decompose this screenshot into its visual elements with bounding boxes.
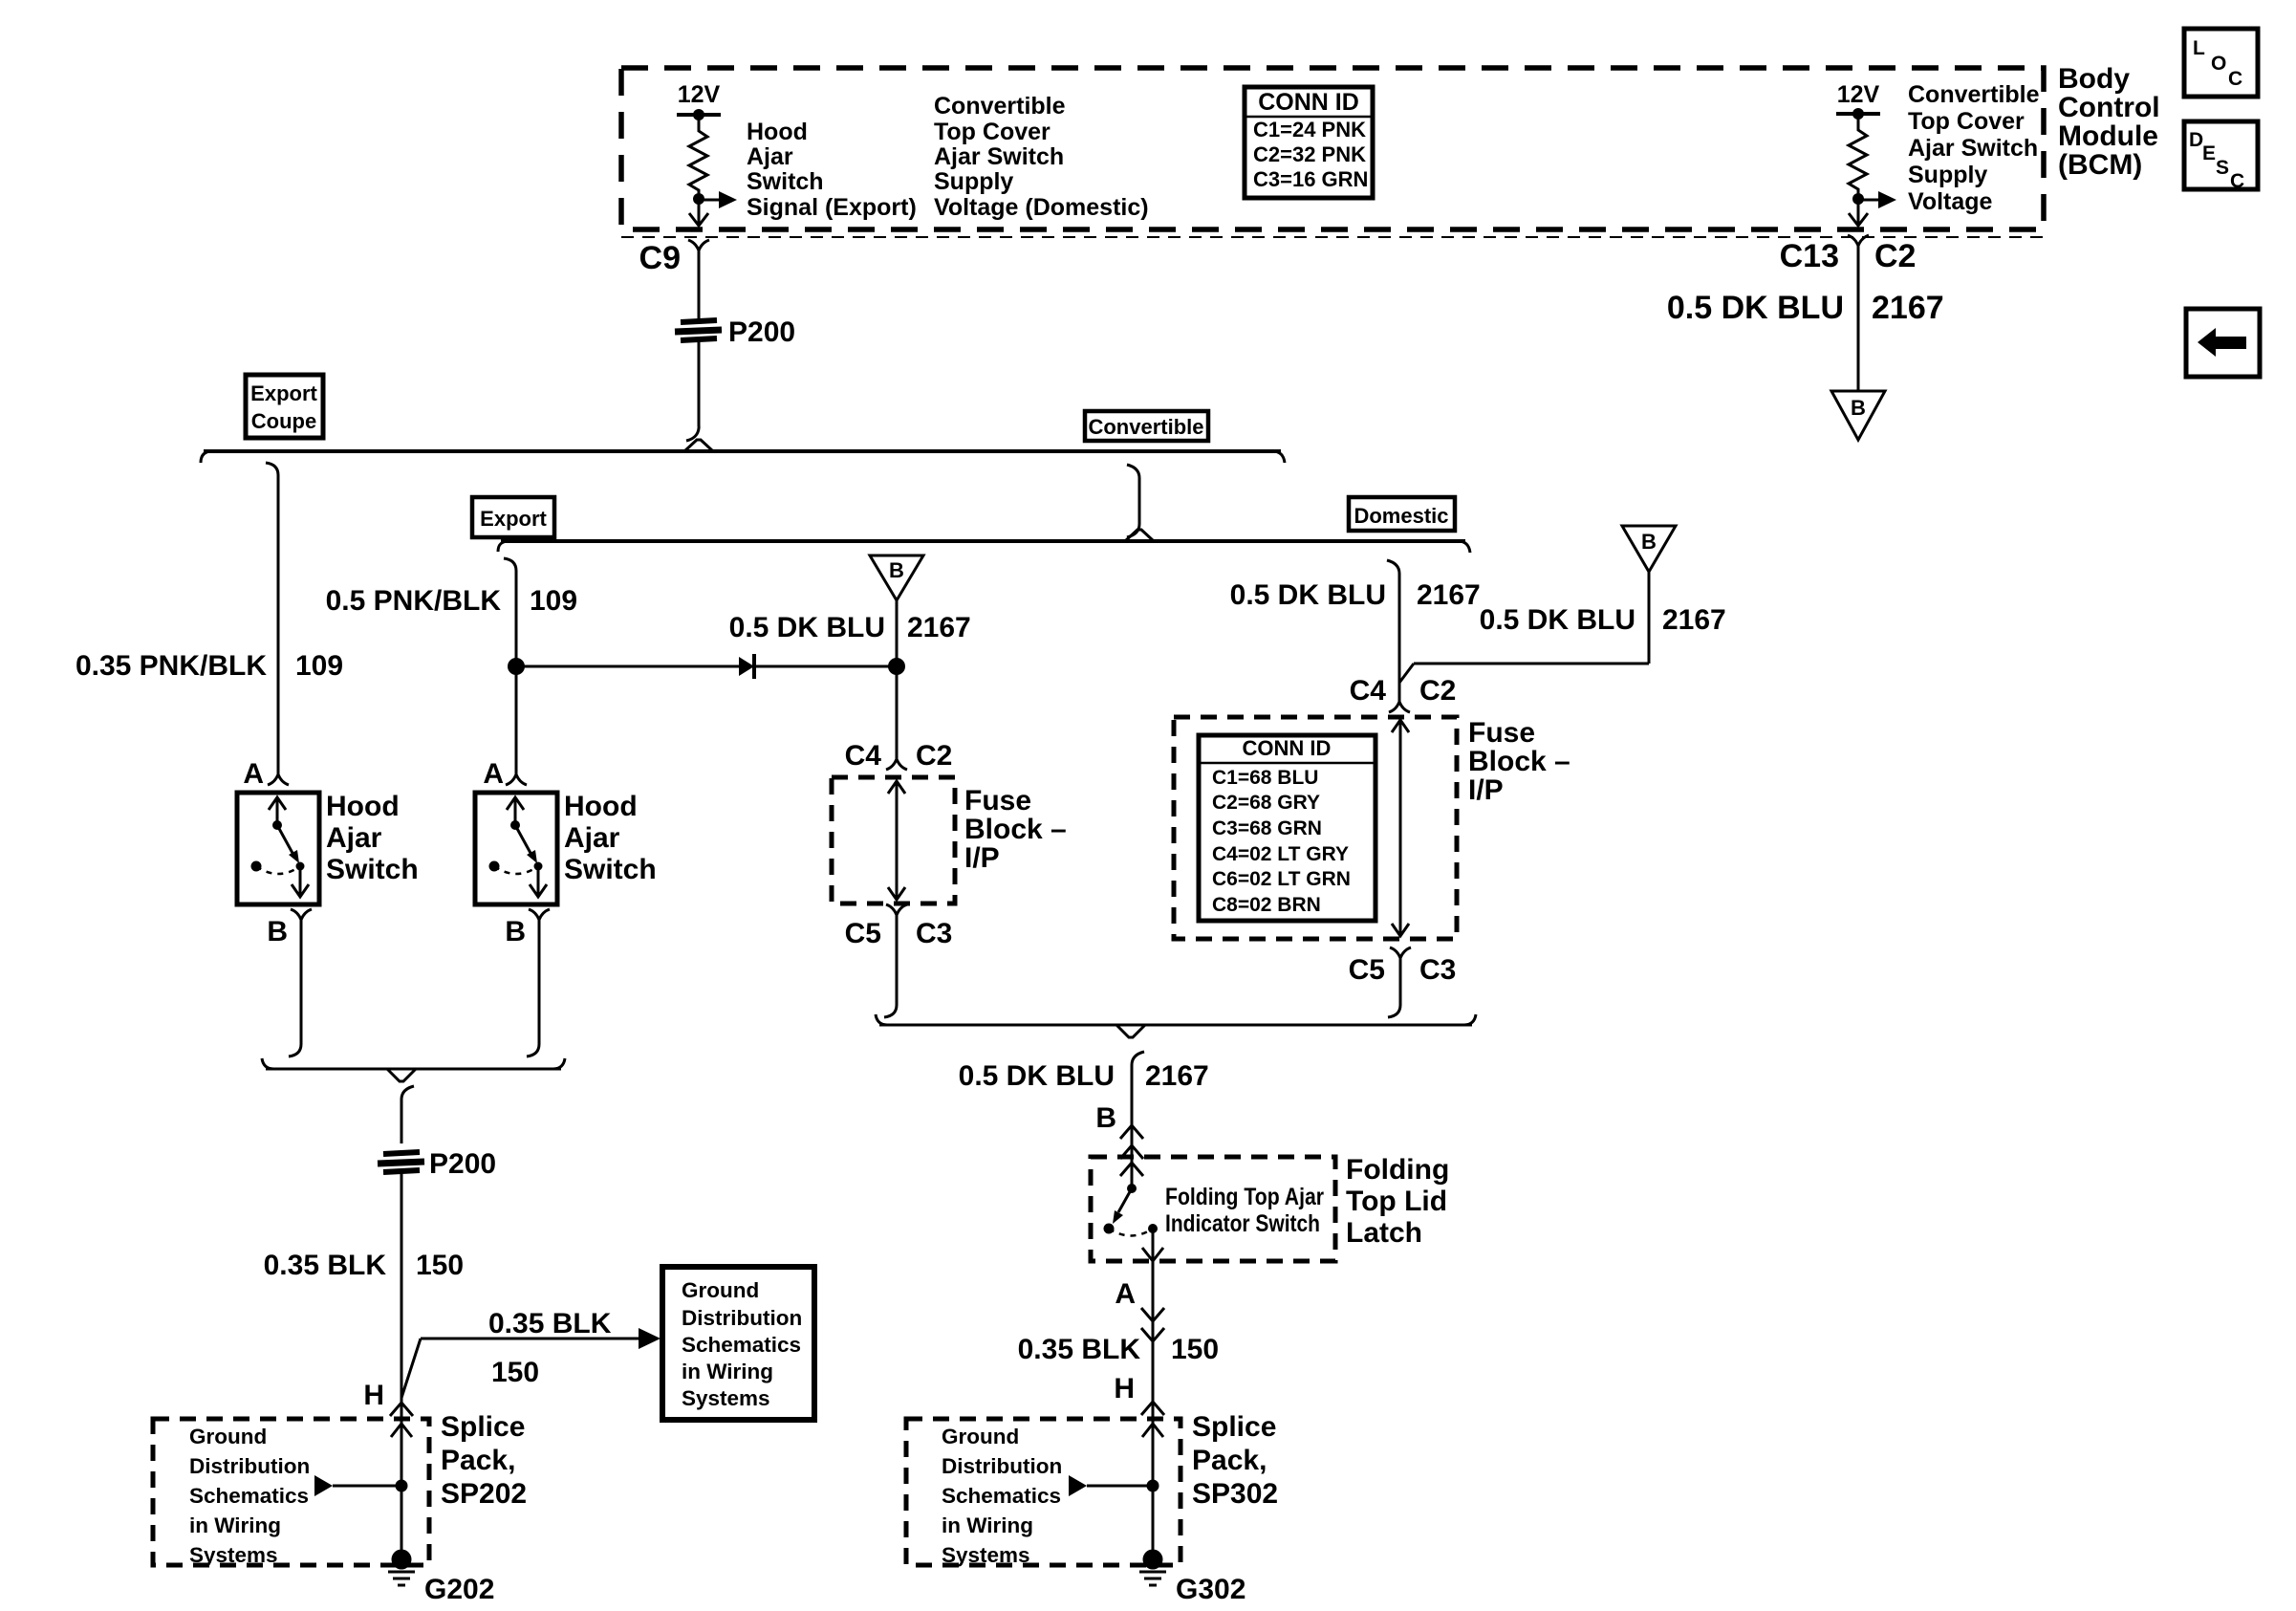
label: Fuse Block - I/P (left) [964, 785, 1067, 874]
svg-text:Systems: Systems [942, 1543, 1030, 1567]
node: splice SP202 [396, 1480, 408, 1492]
back-arrow reference box [2186, 309, 2260, 377]
fuse element (double-ended arrow) [888, 781, 905, 900]
splice SP302 entry arrow [1142, 1424, 1163, 1437]
svg-text:L: L [2193, 37, 2205, 59]
svg-text:Block –: Block – [964, 814, 1067, 845]
svg-text:0.35 BLK: 0.35 BLK [488, 1308, 612, 1339]
svg-text:in Wiring: in Wiring [189, 1513, 281, 1537]
wire P200 to option bus [698, 342, 701, 426]
power feed triangle B (export) [870, 555, 923, 600]
svg-text:Convertible: Convertible [1908, 81, 2040, 108]
label: Hood Ajar Switch (left) [326, 791, 419, 885]
svg-text:Convertible: Convertible [1088, 415, 1203, 439]
svg-text:O: O [2211, 53, 2226, 75]
svg-text:B: B [1095, 1102, 1116, 1134]
svg-text:Distribution: Distribution [682, 1306, 802, 1330]
hood ajar switch (export coupe) [237, 793, 319, 904]
grommet P200 (upper) [675, 316, 795, 348]
node: 12V tap (domestic) [1852, 108, 1864, 120]
folding top ajar indicator switch [1104, 1163, 1325, 1261]
pin B (export coupe switch) [267, 909, 312, 947]
svg-text:C: C [2228, 68, 2242, 90]
svg-text:Ajar Switch: Ajar Switch [1908, 135, 2038, 162]
arrow down to pin C2 [1857, 199, 1860, 225]
svg-text:C4: C4 [1350, 675, 1387, 707]
svg-text:A: A [483, 758, 504, 790]
svg-text:C3: C3 [1419, 954, 1456, 986]
svg-text:Schematics: Schematics [682, 1333, 801, 1357]
resistor (hood ajar switch pull-up, export) [689, 115, 707, 199]
pin B (folding top switch) [1095, 1102, 1143, 1159]
wire: C5 to collector [884, 915, 897, 1017]
svg-text:C2=32 PNK: C2=32 PNK [1253, 142, 1366, 166]
wire: P200 to splice pack SP202, 0.35 BLK 150 [264, 1174, 464, 1559]
splice branch arrow (SP302) [1069, 1475, 1153, 1496]
svg-text:Hood: Hood [564, 791, 638, 822]
svg-text:Distribution: Distribution [942, 1454, 1062, 1478]
wire: collector to P200 [401, 1099, 403, 1143]
CONN ID table (fuse block) [1199, 735, 1375, 921]
svg-text:C3: C3 [916, 918, 952, 949]
svg-text:Systems: Systems [189, 1543, 278, 1567]
svg-text:Ground: Ground [682, 1278, 759, 1302]
svg-text:2167: 2167 [1872, 290, 1944, 326]
wire: switch B to collector (right) [527, 920, 539, 1056]
svg-text:Export: Export [480, 507, 547, 531]
svg-text:Module: Module [2058, 120, 2158, 152]
pin B (export switch) [505, 909, 550, 947]
svg-text:P200: P200 [728, 316, 795, 348]
svg-text:B: B [267, 916, 288, 947]
svg-text:C2: C2 [1419, 675, 1456, 707]
label: Splice Pack, SP202 [441, 1411, 527, 1510]
svg-text:Supply: Supply [1908, 162, 1987, 188]
svg-text:Signal (Export): Signal (Export) [747, 194, 917, 221]
svg-text:I/P: I/P [1468, 774, 1504, 806]
wire: switch B to collector (left) [289, 920, 301, 1056]
wire: C3 to collector [1388, 958, 1400, 1017]
svg-text:P200: P200 [429, 1148, 496, 1180]
svg-text:109: 109 [530, 585, 577, 617]
svg-text:CONN ID: CONN ID [1258, 89, 1359, 116]
wire: C2 to power feed B, 0.5 DK BLU 2167 [1667, 246, 1944, 391]
svg-text:C3=68 GRN: C3=68 GRN [1212, 817, 1322, 839]
label: Fuse Block - I/P (right) [1468, 717, 1570, 806]
svg-text:Folding Top Ajar: Folding Top Ajar [1165, 1184, 1324, 1210]
svg-text:Coupe: Coupe [251, 409, 316, 433]
svg-text:12V: 12V [1837, 81, 1880, 108]
svg-text:Switch: Switch [747, 168, 824, 195]
label: Body Control Module (BCM) [2058, 63, 2160, 181]
svg-text:in Wiring: in Wiring [942, 1513, 1033, 1537]
12V supply rail (export) [677, 113, 721, 117]
svg-text:C6=02 LT GRN: C6=02 LT GRN [1212, 868, 1351, 890]
connector C5/C3 (fuse block right) [1349, 947, 1457, 986]
svg-text:2167: 2167 [1145, 1060, 1209, 1092]
svg-text:Top Cover: Top Cover [1908, 108, 2025, 135]
pin labels: Hood Ajar Switch Signal (Export) [747, 119, 917, 221]
folding top lid latch dashed box [1091, 1157, 1335, 1261]
LOC reference box [2184, 29, 2258, 97]
svg-text:C3=16 GRN: C3=16 GRN [1253, 167, 1368, 191]
svg-text:C2: C2 [1874, 238, 1916, 274]
arrow down to pin C9 [698, 199, 701, 225]
svg-text:Systems: Systems [682, 1386, 770, 1410]
svg-text:H: H [1114, 1373, 1135, 1404]
connector C13/C2 (BCM domestic) [1780, 235, 1917, 274]
fuse block I/P (right, dashed) [1174, 717, 1457, 939]
tag: Domestic [1349, 497, 1455, 531]
svg-text:Domestic: Domestic [1354, 504, 1448, 528]
svg-text:Indicator Switch: Indicator Switch [1165, 1210, 1320, 1237]
svg-text:C13: C13 [1780, 238, 1839, 274]
svg-text:S: S [2216, 157, 2229, 179]
wire: switch A to splice pack SP302 [1152, 1261, 1155, 1559]
svg-text:D: D [2189, 129, 2203, 151]
power feed triangle B (domestic top) [1831, 391, 1885, 440]
svg-text:0.5 DK BLU: 0.5 DK BLU [729, 612, 885, 643]
wire C9 to P200 [698, 250, 701, 319]
svg-text:Schematics: Schematics [189, 1484, 309, 1508]
svg-text:B: B [505, 916, 526, 947]
pin A (export switch) [483, 758, 527, 790]
svg-text:12V: 12V [678, 81, 721, 108]
svg-text:0.35 BLK: 0.35 BLK [264, 1250, 387, 1281]
ground G302 [1139, 1550, 1245, 1606]
svg-text:C1=24 PNK: C1=24 PNK [1253, 118, 1366, 142]
connector C4/C2 (fuse block right) [1350, 675, 1457, 712]
resistor (top cover ajar switch pull-up, domestic) [1849, 114, 1867, 199]
node: fuse feed splice [888, 658, 905, 675]
svg-text:Switch: Switch [326, 854, 419, 885]
ground distribution note (SP302) [942, 1425, 1062, 1567]
svg-text:Latch: Latch [1346, 1217, 1422, 1249]
svg-text:G202: G202 [424, 1574, 494, 1605]
diode [739, 654, 754, 679]
node: signal tap (export) [693, 193, 704, 205]
connector C5/C3 (fuse block left) [845, 904, 953, 949]
collector bus (hood switches) [262, 1058, 565, 1099]
svg-text:C9: C9 [639, 240, 681, 276]
svg-text:C1=68 BLU: C1=68 BLU [1212, 767, 1318, 789]
fuse element (right block) [1392, 720, 1409, 936]
wire: splice to connector C4 [896, 666, 899, 759]
wire: B feed to fuse block, 0.5 DK BLU 2167 [1399, 572, 1726, 683]
svg-text:C4=02 LT GRY: C4=02 LT GRY [1212, 843, 1349, 865]
body control module (BCM) dashed box [621, 68, 2044, 229]
svg-text:Switch: Switch [564, 854, 657, 885]
tag: Export [472, 497, 554, 537]
signal arrow (export) [699, 199, 721, 202]
12V supply rail (domestic) [1836, 112, 1880, 116]
pin labels: Convertible Top Cover Ajar Switch Supply Voltage [1908, 81, 2040, 215]
grommet P200 (lower) [378, 1148, 496, 1180]
splice pack SP202 dashed box [153, 1419, 429, 1565]
svg-text:C: C [2230, 170, 2244, 192]
svg-text:SP202: SP202 [441, 1478, 527, 1510]
svg-text:109: 109 [295, 650, 343, 682]
supply voltage arrow (domestic) [1858, 199, 1879, 202]
svg-text:0.5 DK BLU: 0.5 DK BLU [1667, 290, 1844, 326]
option bus: Export / Domestic [498, 530, 1470, 553]
svg-text:Ajar Switch: Ajar Switch [934, 143, 1064, 170]
svg-text:Convertible: Convertible [934, 93, 1066, 120]
pin H (SP302) [1114, 1373, 1164, 1415]
node: 12V tap (export) [693, 109, 704, 120]
svg-text:Ground: Ground [942, 1425, 1019, 1448]
svg-text:(BCM): (BCM) [2058, 149, 2142, 181]
collector bus (fuse block outputs) [876, 1014, 1476, 1065]
svg-text:Pack,: Pack, [441, 1445, 515, 1476]
branch wire 0.35 BLK 150 to ground distribution [401, 1308, 661, 1398]
node: splice SP302 [1147, 1480, 1159, 1492]
svg-text:150: 150 [491, 1357, 539, 1388]
svg-text:Splice: Splice [441, 1411, 525, 1443]
svg-text:C2: C2 [916, 740, 952, 772]
svg-text:0.5 DK BLU: 0.5 DK BLU [1230, 579, 1386, 611]
svg-text:0.35 BLK: 0.35 BLK [1018, 1334, 1141, 1365]
svg-text:2167: 2167 [1417, 579, 1481, 611]
svg-text:Top Cover: Top Cover [934, 119, 1051, 145]
svg-text:Control: Control [2058, 92, 2160, 123]
svg-text:Hood: Hood [326, 791, 400, 822]
svg-text:B: B [1641, 530, 1657, 554]
svg-text:Ajar: Ajar [564, 822, 620, 854]
pin A (folding top switch) [1115, 1278, 1164, 1341]
svg-text:Fuse: Fuse [964, 785, 1031, 816]
wire end curl [686, 425, 699, 441]
wire: export coupe branch 0.35 PNK/BLK 109 [76, 463, 343, 774]
svg-text:E: E [2202, 142, 2216, 164]
wire: convertible drop to second bus [1127, 465, 1139, 537]
svg-text:150: 150 [1171, 1334, 1219, 1365]
svg-text:Folding: Folding [1346, 1154, 1449, 1186]
splice SP202 entry arrow [391, 1424, 412, 1437]
svg-text:C4: C4 [845, 740, 882, 772]
svg-text:I/P: I/P [964, 842, 1000, 874]
wire: splice to fuse block feed [516, 665, 897, 668]
svg-text:A: A [1115, 1278, 1136, 1310]
svg-text:Ajar: Ajar [747, 143, 793, 170]
label: Hood Ajar Switch (right) [564, 791, 657, 885]
svg-text:Voltage (Domestic): Voltage (Domestic) [934, 194, 1149, 221]
svg-text:0.35 PNK/BLK: 0.35 PNK/BLK [76, 650, 267, 682]
svg-text:C5: C5 [845, 918, 881, 949]
svg-text:SP302: SP302 [1192, 1478, 1278, 1510]
tag: Export Coupe [246, 375, 323, 438]
label: Folding Top Lid Latch [1346, 1154, 1449, 1249]
connector C4/C2 (fuse block left) [845, 740, 953, 772]
svg-text:Distribution: Distribution [189, 1454, 310, 1478]
fuse block I/P (left, dashed) [832, 777, 955, 903]
pin A (export coupe switch) [243, 758, 289, 790]
svg-text:in Wiring: in Wiring [682, 1360, 773, 1383]
svg-text:Hood: Hood [747, 119, 808, 145]
svg-text:Body: Body [2058, 63, 2130, 95]
svg-text:150: 150 [416, 1250, 464, 1281]
ground distribution note (SP202) [189, 1425, 310, 1567]
svg-text:2167: 2167 [1662, 604, 1726, 636]
svg-text:0.5 DK BLU: 0.5 DK BLU [1480, 604, 1635, 636]
power feed triangle B (domestic right) [1622, 526, 1676, 572]
svg-text:G302: G302 [1176, 1574, 1245, 1605]
page boundary dashed line [621, 236, 2044, 238]
wire: domestic branch from bus, 0.5 DK BLU 2167 [1230, 560, 1481, 702]
svg-text:C5: C5 [1349, 954, 1385, 986]
svg-text:C8=02 BRN: C8=02 BRN [1212, 894, 1321, 916]
svg-text:H: H [363, 1380, 384, 1411]
svg-text:Ajar: Ajar [326, 822, 382, 854]
svg-text:Splice: Splice [1192, 1411, 1276, 1443]
ground distribution schematics reference box [662, 1267, 814, 1420]
wire: export branch 0.5 PNK/BLK 109 [326, 558, 577, 774]
DESC reference box [2184, 121, 2258, 192]
splice pack SP302 dashed box [906, 1419, 1180, 1565]
svg-text:Export: Export [250, 381, 317, 405]
wire: collector to folding top switch, 0.5 DK BLU 2167 [959, 1060, 1209, 1188]
svg-text:2167: 2167 [907, 612, 971, 643]
svg-text:Schematics: Schematics [942, 1484, 1061, 1508]
svg-text:C2=68 GRY: C2=68 GRY [1212, 792, 1320, 814]
pin labels: Convertible Top Cover Ajar Switch Supply Voltage (Domestic) [934, 93, 1149, 221]
svg-text:Top Lid: Top Lid [1346, 1186, 1447, 1217]
svg-text:Block –: Block – [1468, 746, 1570, 777]
option bus: Export Coupe / Convertible [201, 440, 1285, 463]
label 0.35 BLK 150 [1018, 1334, 1219, 1365]
node: export splice [508, 658, 525, 675]
splice branch arrow (SP202) [314, 1475, 401, 1496]
svg-text:Pack,: Pack, [1192, 1445, 1267, 1476]
label: Splice Pack, SP302 [1192, 1411, 1278, 1510]
connector C9 (BCM) [639, 240, 709, 276]
wire: B to splice [896, 600, 899, 666]
node: supply tap (domestic) [1852, 193, 1864, 205]
label 0.5 DK BLU 2167 [729, 612, 971, 643]
svg-text:0.5 DK BLU: 0.5 DK BLU [959, 1060, 1115, 1092]
svg-text:Voltage: Voltage [1908, 188, 1993, 215]
hood ajar switch (export) [475, 793, 557, 904]
svg-text:0.5 PNK/BLK: 0.5 PNK/BLK [326, 585, 502, 617]
svg-text:B: B [889, 558, 904, 582]
svg-text:CONN ID: CONN ID [1243, 736, 1332, 760]
tag: Convertible [1085, 411, 1208, 441]
pin H (SP202) [363, 1380, 413, 1416]
svg-text:Fuse: Fuse [1468, 717, 1535, 749]
ground G202 [388, 1550, 494, 1606]
CONN ID table (BCM) [1245, 87, 1373, 198]
svg-text:Ground: Ground [189, 1425, 267, 1448]
svg-text:B: B [1851, 396, 1866, 420]
svg-text:Supply: Supply [934, 168, 1013, 195]
svg-text:A: A [243, 758, 264, 790]
